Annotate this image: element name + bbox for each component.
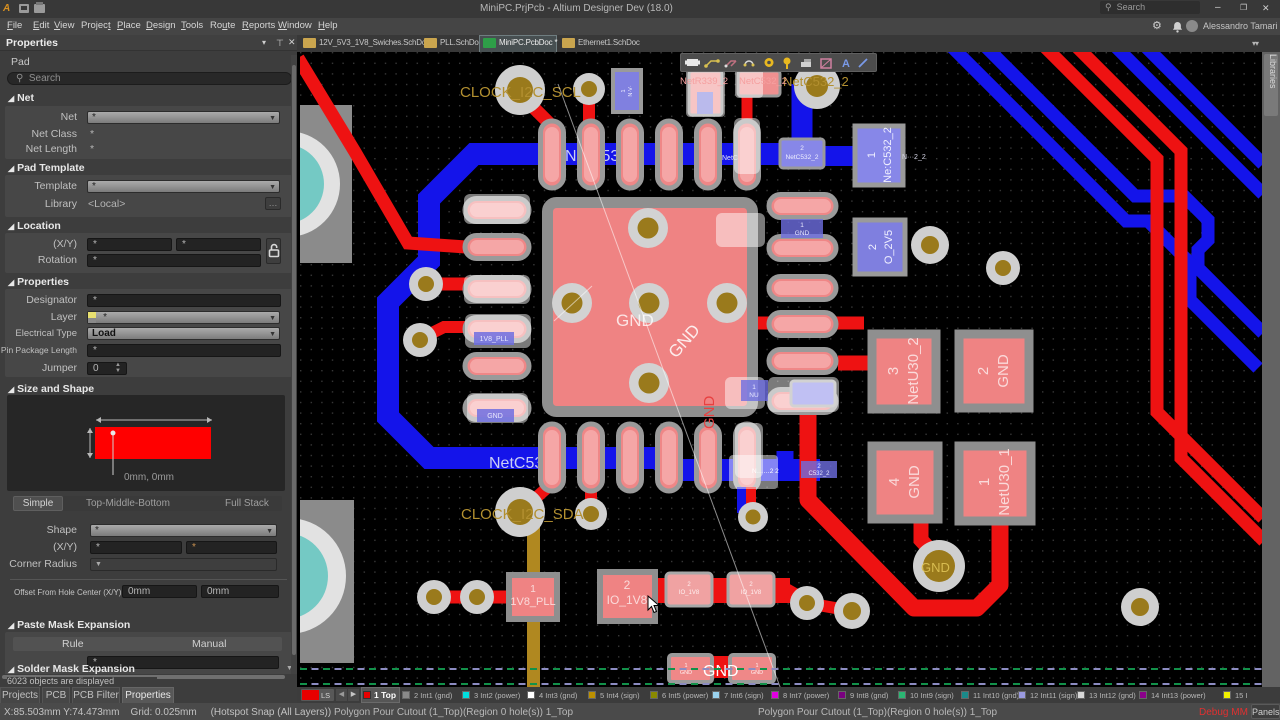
text on pad 1 NetU30_1 [976, 448, 1013, 516]
net label 1 GND on QFN right pad 1 [781, 219, 823, 238]
highlight mask left pad 1 [464, 194, 530, 224]
wire red QFN right pad R4 stub [836, 317, 864, 330]
net name GND in exposed pad (diagonal) [665, 321, 704, 362]
highlight mask left pad 6 [467, 393, 528, 423]
QFN pad top 3 [619, 121, 642, 188]
net label GND on left pad 6 [477, 409, 514, 422]
wire red IO_1V8 trace [656, 578, 790, 603]
highlight mask left pad 4 [465, 314, 531, 348]
QFN pad left 6 [465, 397, 529, 420]
wire red chip right exit [750, 317, 770, 330]
QFN pad bottom 3 [619, 424, 642, 491]
wire red between bottom GND pads [711, 656, 729, 678]
pad 4 GND [872, 446, 938, 519]
via IO_1V8 a [790, 586, 824, 620]
svg-text:1: 1 [866, 152, 878, 158]
svg-text:GND: GND [921, 560, 950, 575]
resistor R339 pad inner (violet) [697, 92, 713, 114]
svg-text:NU: NU [749, 392, 759, 399]
IC U30 QFN body with exposed pad [548, 203, 753, 412]
svg-text:2: 2 [867, 244, 879, 250]
wire red stub below bottom pad 6 [746, 487, 756, 513]
QFN pad top 5 [697, 121, 720, 188]
mouse cursor [647, 595, 661, 615]
ratsnest line short through left via [554, 286, 592, 321]
small pad IO_1V8 b [728, 573, 774, 606]
wire blue stub from via NetC532_2 down to pad 2 [792, 84, 813, 140]
net label 1V8_PLL on left pad 4 [474, 332, 514, 345]
highlight mask left pad 3 [464, 275, 530, 304]
via in exposed pad bottom [629, 363, 669, 403]
svg-text:1: 1 [800, 222, 804, 229]
wire red NetC532_2 pad down to pad 6 [742, 95, 753, 125]
wire blue weave lower [941, 36, 1258, 368]
wire red via to left pad D [420, 327, 470, 339]
QFN pad bottom 4 [658, 424, 681, 491]
highlight mask QFN right pads 6 [768, 377, 839, 412]
wire red vias to 1V8_PLL pad [420, 591, 512, 604]
svg-text:C532_2: C532_2 [808, 471, 830, 477]
text on violet capacitor pad top [621, 85, 634, 96]
svg-text:1: 1 [976, 478, 993, 486]
QFN pad top 2 [580, 121, 603, 188]
wire red right vertical 1 [1038, 40, 1263, 518]
svg-text:4: 4 [886, 478, 903, 486]
pad 2 IO_1V8 [600, 572, 655, 621]
svg-text:NetU30_1: NetU30_1 [996, 448, 1013, 516]
via bottom right [1121, 588, 1159, 626]
svg-text:2: 2 [975, 367, 992, 375]
via below bottom pad 6 [738, 502, 768, 532]
mounting hole MH2 ring [230, 518, 346, 634]
wire red ring above via [903, 495, 913, 505]
wire blue weave upper [975, 36, 1263, 333]
QFN pad top 4 [658, 121, 681, 188]
wire red between bottom vias [807, 603, 852, 611]
wire red via to left pad C [426, 278, 470, 291]
wire red via SCL to pad 1 [520, 94, 552, 126]
mounting hole MH1 hole [244, 144, 324, 224]
svg-text:NetU30_2: NetU30_2 [905, 337, 922, 405]
QFN pad top 1 [541, 121, 564, 188]
QFN pad bottom 2 [580, 424, 603, 491]
svg-text:CLOCK_I2C_SCL: CLOCK_I2C_SCL [460, 84, 581, 101]
text on pad 3 NetU30_2 [885, 337, 922, 405]
svg-text:N···2_2: N···2_2 [902, 154, 926, 161]
pad 2 NetC532_2 (violet) [780, 139, 824, 168]
wire red pad1 bottom to via SDA [528, 487, 548, 505]
QFN pad left 1 [465, 199, 529, 222]
small pad IO_1V8 a [666, 573, 712, 606]
pad 1 (violet) right of QFN bottom [791, 381, 835, 406]
text on pad 4 GND [886, 465, 923, 499]
pad 1 NetC532_2 (violet, large) [855, 126, 903, 185]
QFN pad left 5 [465, 355, 529, 378]
via CLOCK_I2C_SDA [495, 487, 545, 537]
svg-text:GND: GND [703, 663, 739, 680]
wire red pad2 bottom to via [585, 489, 597, 505]
via 1V8_PLL left b [460, 580, 494, 614]
svg-text:N·V·: N·V· [628, 85, 634, 96]
mounting hole MH1 ring [234, 131, 340, 237]
floating toolbar [680, 53, 877, 72]
QFN pad left 4 [465, 318, 529, 341]
svg-text:GND: GND [487, 413, 503, 420]
wire blue stub below bottom pad 6 [737, 487, 746, 513]
svg-text:3: 3 [885, 367, 902, 375]
wire red QFN right pad R5 to NetU30 pad 3 [838, 356, 874, 371]
mounting hole MH1 pad [240, 105, 352, 263]
highlight mask bottom pad 6 [735, 423, 763, 478]
text on pad 2 GND [975, 354, 1012, 388]
wire blue stub bottom right of QFN [777, 451, 794, 481]
QFN pad left 2 [465, 236, 529, 259]
QFN pad bottom 5 [697, 424, 720, 491]
via left lower [403, 323, 437, 357]
svg-text:NetC532_2: NetC532_2 [786, 154, 819, 161]
net name GND red rotated [701, 396, 718, 430]
via 1V8_PLL left a [417, 580, 451, 614]
highlight mask chip corner top right [716, 213, 765, 247]
svg-text:1: 1 [621, 89, 627, 92]
svg-text:1: 1 [530, 584, 536, 595]
net label 2 C532_2 [801, 461, 837, 478]
QFN pad right 4 [769, 313, 836, 336]
svg-text:NetR339_2: NetR339_2 [680, 76, 728, 87]
wire red via to pad 2 [583, 94, 595, 126]
svg-text:1: 1 [755, 663, 758, 669]
highlight mask R339 pad [686, 68, 725, 117]
capacitor C532 pad top [738, 71, 780, 96]
via in exposed pad left [552, 283, 592, 323]
wire red main left diagonal [298, 58, 466, 247]
net label 1 NU right of QFN [741, 380, 768, 401]
via in exposed pad center [629, 283, 669, 323]
via right of CLOCK_I2C_SDA [575, 498, 607, 530]
wire red GND route bottom right [808, 408, 1000, 608]
QFN pad right 3 [769, 277, 836, 300]
via in exposed pad top [628, 208, 668, 248]
pad 1 1V8_PLL [509, 575, 557, 619]
highlight mask right of bottom pad 6 [729, 455, 778, 489]
highlight mask top pad 6 [734, 118, 760, 174]
board outline dashed line upper [300, 668, 1262, 670]
pad 1 NetU30_1 [959, 446, 1031, 521]
mounting hole MH2 hole [242, 533, 328, 619]
resistor R339 pad [689, 71, 722, 115]
via near O_2V5 [911, 226, 949, 264]
wire blue diagonal top right B [1139, 40, 1263, 164]
pad GND bottom b [730, 655, 774, 682]
wire olive CLOCK_I2C_SDA vertical trace [527, 512, 540, 687]
wire blue link pad2 to pad1 NetC532_2 [822, 146, 858, 166]
svg-text:GND: GND [701, 396, 718, 430]
QFN pad bottom 6 [736, 424, 759, 491]
svg-text:IO_1V8: IO_1V8 [741, 590, 762, 596]
via right of CLOCK_I2C_SCL [573, 73, 605, 105]
via GND large [913, 540, 965, 592]
svg-text:1V8_PLL: 1V8_PLL [510, 596, 555, 608]
svg-text:GND: GND [995, 354, 1012, 388]
svg-text:N……2 2: N……2 2 [752, 468, 779, 475]
wire red right vertical 2 [1070, 40, 1264, 541]
svg-text:CLOCK_I2C_SDA: CLOCK_I2C_SDA [461, 506, 584, 523]
pad GND bottom a [669, 655, 712, 682]
svg-text:NetC: NetC [722, 155, 738, 162]
svg-text:IO_1V8: IO_1V8 [607, 593, 648, 607]
highlight mask C532 pad [735, 68, 763, 98]
svg-text:1: 1 [752, 384, 756, 391]
QFN pad left 3 [465, 278, 529, 301]
svg-text:IO_1V8: IO_1V8 [679, 590, 700, 596]
svg-text:2: 2 [800, 145, 804, 152]
wire blue loop around left vias [388, 154, 820, 470]
pad 2 GND [959, 334, 1029, 408]
via CLOCK_I2C_SCL [495, 65, 545, 115]
QFN pad top 6 [736, 121, 759, 188]
QFN pad right 6 [769, 390, 836, 413]
text on pad 1 NetC532_2 [866, 127, 894, 183]
QFN pad bottom 1 [541, 424, 564, 491]
svg-text:GND: GND [680, 670, 692, 676]
svg-text:Ne:C532_2: Ne:C532_2 [882, 127, 894, 183]
QFN pad right 2 [769, 237, 836, 260]
highlight mask chip corner bottom right [725, 377, 765, 409]
wire red pad4 GND to via [921, 518, 933, 553]
svg-text:GND: GND [795, 230, 810, 237]
ratsnest line long [558, 84, 783, 695]
via NetC532_2 top [794, 63, 840, 109]
svg-text:O_2V5: O_2V5 [883, 230, 895, 264]
capacitor pad (selected, violet) top [613, 70, 641, 112]
text on pad 2 O_2V5 [867, 230, 895, 264]
QFN pad right 5 [769, 350, 836, 373]
via right mid [986, 251, 1020, 285]
svg-text:GND: GND [906, 465, 923, 499]
pad 2 O_2V5 (violet) [855, 220, 905, 274]
via in exposed pad right [707, 283, 747, 323]
svg-text:A: A [842, 58, 850, 70]
QFN pad right 1 [769, 195, 836, 218]
open padlock icon [268, 243, 280, 258]
board outline dashed line lower [300, 683, 1262, 685]
via left upper [409, 267, 443, 301]
svg-text:1V8_PLL: 1V8_PLL [480, 336, 509, 343]
svg-text:GND: GND [616, 311, 654, 330]
svg-text:2: 2 [624, 578, 631, 592]
svg-text:NetC532_2: NetC532_2 [739, 76, 787, 87]
pad 3 NetU30_2 [872, 334, 936, 409]
svg-text:NetC532_2: NetC532_2 [783, 74, 849, 89]
mounting hole MH2 pad [240, 500, 354, 663]
wire blue diagonal top right A [1109, 40, 1263, 194]
svg-text:GND: GND [751, 670, 763, 676]
via IO_1V8 b [834, 593, 870, 629]
